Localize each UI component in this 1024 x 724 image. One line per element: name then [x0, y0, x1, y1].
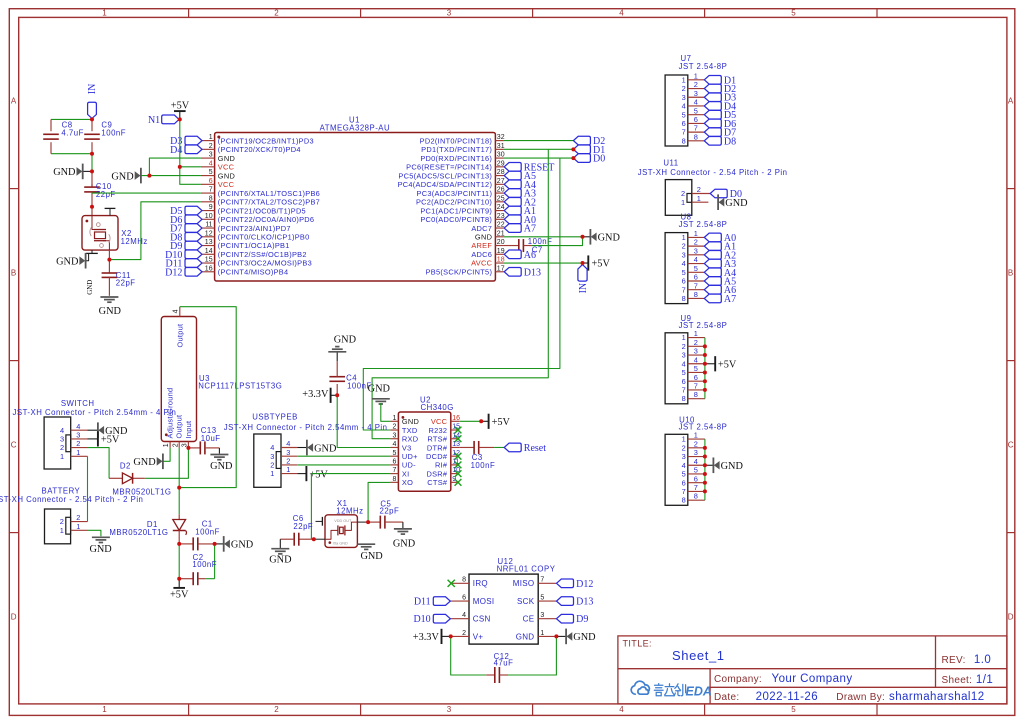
power flag +5V at U2 VCC	[488, 414, 490, 429]
svg-text:15: 15	[205, 257, 213, 264]
flag A0 on U8	[704, 233, 721, 242]
svg-text:9: 9	[209, 204, 213, 211]
svg-text:A7: A7	[524, 224, 536, 235]
svg-text:B: B	[1008, 269, 1013, 278]
X2 case stub top	[109, 208, 111, 215]
U9 pin 4	[688, 363, 705, 365]
wire C8 C9 bottoms	[51, 153, 92, 155]
svg-text:AREF: AREF	[471, 241, 492, 250]
U1 pin 26 PC3(ADC3/PCINT11)	[495, 192, 504, 194]
svg-text:4: 4	[694, 255, 698, 264]
svg-text:4: 4	[619, 705, 624, 714]
capacitor C2 100nF	[178, 544, 180, 579]
svg-text:GND: GND	[53, 167, 76, 178]
netflag IN top-left	[88, 102, 97, 118]
svg-text:1: 1	[102, 9, 107, 18]
svg-text:R232: R232	[429, 426, 448, 435]
connector BATTERY body	[45, 509, 71, 544]
flag D2 on U7	[704, 84, 721, 93]
svg-text:EDA: EDA	[686, 685, 712, 699]
svg-text:7: 7	[694, 124, 698, 133]
U9 pin 3	[688, 354, 705, 356]
U2 pin 14 RTS#	[451, 438, 459, 440]
U2 pin 12 DCD#	[451, 455, 459, 457]
svg-text:7: 7	[682, 487, 686, 496]
svg-text:3: 3	[682, 351, 686, 360]
wire +5V rail to U1 pin4 VCC	[180, 119, 201, 166]
U1 pin 10 (PCINT22/OC0A/AIN0)PD6	[201, 218, 215, 220]
ground flag left of C9	[83, 170, 92, 172]
svg-text:CH340G: CH340G	[421, 403, 454, 412]
svg-text:5: 5	[682, 368, 686, 377]
svg-text:DTR#: DTR#	[427, 443, 448, 452]
wire U3 pin1 to GND	[163, 448, 170, 461]
svg-text:28: 28	[497, 169, 505, 176]
svg-text:1: 1	[682, 435, 686, 444]
wire U1 pin32 to flag D2	[504, 140, 574, 142]
svg-text:2: 2	[60, 517, 64, 526]
ground flag near U1 pins 3-5	[140, 168, 142, 184]
svg-text:D4: D4	[170, 145, 182, 156]
svg-text:GND: GND	[314, 443, 337, 454]
wire U3 output rail	[179, 307, 236, 488]
svg-text:12: 12	[205, 230, 213, 237]
svg-text:2: 2	[681, 189, 685, 198]
U1 pin 1 (PCINT19/OC2B/INT1)PD3	[201, 140, 215, 142]
svg-text:PC3(ADC3/PCINT11): PC3(ADC3/PCINT11)	[417, 189, 493, 198]
svg-text:PC0(ADC0/PCINT8): PC0(ADC0/PCINT8)	[420, 215, 492, 224]
svg-text:4.7uF: 4.7uF	[61, 128, 83, 137]
U10 pin 6	[688, 482, 705, 484]
svg-text:3: 3	[286, 448, 290, 457]
U2 pin 4 V3	[390, 446, 398, 448]
wire U1 pin21 GND	[504, 236, 583, 238]
svg-text:Output: Output	[175, 415, 184, 439]
flag D6 on U1 pin10	[185, 215, 202, 224]
svg-text:5: 5	[209, 169, 213, 176]
capacitor C8 4.7uF	[50, 119, 52, 131]
svg-text:GND: GND	[721, 461, 744, 472]
U12 pin 3 CE	[538, 618, 556, 620]
svg-text:USBTYPEB: USBTYPEB	[252, 412, 298, 421]
svg-text:Reset: Reset	[524, 443, 546, 454]
svg-text:4: 4	[694, 457, 698, 466]
flag D7 on U7	[704, 128, 721, 137]
svg-text:1.0: 1.0	[974, 654, 991, 666]
svg-text:2: 2	[694, 338, 698, 347]
U1 pin 6 VCC	[201, 183, 215, 185]
svg-text:6: 6	[694, 115, 698, 124]
svg-text:D: D	[11, 613, 17, 622]
svg-text:8: 8	[682, 394, 686, 403]
wire U2 XO to X1	[368, 482, 390, 522]
svg-text:10uF: 10uF	[201, 434, 221, 443]
svg-text:4: 4	[209, 160, 213, 167]
svg-text:5: 5	[694, 264, 698, 273]
svg-text:GND: GND	[402, 417, 419, 426]
svg-text:UD-: UD-	[402, 461, 416, 470]
svg-text:GND: GND	[334, 335, 357, 346]
svg-text:PD0(RXD/PCINT16): PD0(RXD/PCINT16)	[420, 154, 492, 163]
U10 pin 2	[688, 447, 705, 449]
svg-text:6: 6	[682, 119, 686, 128]
svg-text:2: 2	[682, 84, 686, 93]
svg-text:GND: GND	[111, 171, 134, 182]
svg-text:V+: V+	[473, 632, 484, 641]
U1 pin 12 (PCINT0/CLKO/ICP1)PB0	[201, 236, 215, 238]
svg-text:8: 8	[392, 476, 396, 483]
U1 pin 24 PC1(ADC1/PCINT9)	[495, 210, 504, 212]
wire IN node to C8	[51, 118, 92, 120]
svg-text:MISO: MISO	[513, 579, 535, 588]
svg-text:16: 16	[452, 415, 460, 422]
flag A3 on U8	[704, 259, 721, 268]
flag D12 on U1 pin16	[185, 267, 202, 276]
svg-text:5: 5	[540, 595, 544, 602]
svg-text:6: 6	[209, 178, 213, 185]
svg-text:+5V: +5V	[170, 589, 189, 600]
svg-text:1: 1	[682, 333, 686, 342]
svg-text:JST-XH Connector - 2.54 Pitch: JST-XH Connector - 2.54 Pitch - 2 Pin	[638, 168, 788, 177]
ground flag below U3 pin1	[162, 454, 164, 470]
svg-text:D12: D12	[576, 579, 593, 590]
svg-text:GND: GND	[475, 232, 492, 241]
U1 pin 29 PC6(RESET=/PCINT14)	[495, 166, 504, 168]
wire switch pin2 to D2 anode	[88, 448, 110, 479]
svg-text:JST-XH Connector - Pitch 2.54m: JST-XH Connector - Pitch 2.54mm - 4 Pin	[13, 408, 177, 417]
svg-text:12MHz: 12MHz	[336, 506, 363, 515]
U11 pin 1	[692, 201, 709, 203]
svg-text:D2: D2	[120, 461, 131, 470]
svg-text:(PCINT2/SS#/OC1B)PB2: (PCINT2/SS#/OC1B)PB2	[218, 250, 307, 259]
svg-text:1: 1	[682, 233, 686, 242]
svg-text:PB5(SCK/PCINT5): PB5(SCK/PCINT5)	[426, 267, 493, 276]
svg-text:100nF: 100nF	[101, 128, 126, 137]
svg-text:5: 5	[392, 450, 396, 457]
flag D1	[573, 145, 590, 154]
SWITCH pin 3	[71, 438, 88, 440]
wire U10 bus	[704, 439, 706, 500]
svg-text:RXD: RXD	[402, 435, 418, 444]
netflag N1	[162, 115, 179, 124]
U1 pin 15 (PCINT3/OC2A/MOSI)PB3	[201, 262, 215, 264]
svg-text:TXD: TXD	[402, 426, 418, 435]
svg-text:GND: GND	[231, 540, 254, 551]
capacitor C3 100nF to Reset	[459, 446, 474, 448]
svg-text:22pF: 22pF	[116, 279, 136, 288]
connector SWITCH body	[44, 417, 71, 469]
U1 pin 19 ADC6	[495, 253, 504, 255]
svg-text:6: 6	[462, 595, 466, 602]
flag D3 on U1 pin1	[185, 136, 202, 145]
U2 pin 6 UD-	[390, 464, 398, 466]
U9 pin 8	[688, 398, 705, 400]
U8 pin 7	[688, 289, 705, 291]
no-connect X on U12 IRQ	[448, 580, 455, 587]
svg-text:VCC: VCC	[218, 163, 235, 172]
U2 pin 1 GND	[390, 420, 398, 422]
U7 pin 7	[688, 131, 705, 133]
svg-text:2: 2	[682, 342, 686, 351]
svg-text:(PCINT22/OC0A/AIN0)PD6: (PCINT22/OC0A/AIN0)PD6	[218, 215, 315, 224]
svg-text:MBR0520LT1G: MBR0520LT1G	[109, 528, 168, 537]
power flag +5V USB pin1	[297, 473, 306, 475]
svg-text:REV:: REV:	[942, 655, 966, 666]
svg-text:TITLE:: TITLE:	[623, 639, 652, 649]
flag D11 on U1 pin15	[185, 259, 202, 268]
svg-text:27: 27	[497, 178, 505, 185]
X1 pin left	[315, 538, 325, 540]
ground flag at U1 pin21	[583, 236, 591, 238]
svg-text:1/1: 1/1	[976, 674, 993, 686]
svg-text:CSN: CSN	[473, 615, 491, 624]
U10 pin 8	[688, 499, 705, 501]
U3 pin4 output top	[179, 307, 181, 317]
ground flag U12 pin1	[556, 635, 566, 637]
svg-text:GND: GND	[360, 551, 383, 562]
flag D7 on U1 pin11	[185, 224, 202, 233]
svg-text:(PCINT0/CLKO/ICP1)PB0: (PCINT0/CLKO/ICP1)PB0	[218, 232, 310, 241]
svg-text:5: 5	[682, 268, 686, 277]
svg-text:3: 3	[447, 9, 452, 18]
svg-text:2: 2	[60, 443, 64, 452]
SWITCH pin 4	[71, 429, 88, 431]
svg-text:26: 26	[497, 187, 505, 194]
svg-text:5: 5	[791, 9, 796, 18]
ground symbol at C13	[218, 448, 220, 454]
svg-text:5: 5	[682, 470, 686, 479]
svg-text:2: 2	[209, 143, 213, 150]
U7 pin 8	[688, 140, 705, 142]
flag D9 on U12 CE	[557, 614, 574, 623]
wire C10 to U1 pin7	[92, 192, 201, 194]
wire net D0 to CH340 TXD	[363, 158, 560, 430]
svg-text:1: 1	[209, 134, 213, 141]
svg-text:1: 1	[76, 448, 80, 457]
svg-text:D13: D13	[524, 267, 541, 278]
svg-text:JST 2.54-8P: JST 2.54-8P	[679, 220, 728, 229]
svg-text:3: 3	[76, 431, 80, 440]
svg-text:2: 2	[694, 80, 698, 89]
svg-text:6: 6	[694, 273, 698, 282]
svg-text:32: 32	[497, 134, 505, 141]
U7 pin 6	[688, 122, 705, 124]
U8 pin 2	[688, 245, 705, 247]
svg-text:1: 1	[694, 329, 698, 338]
flag A4 on U1	[504, 180, 521, 189]
wire net D1 to CH340 RXD	[372, 149, 548, 438]
wire X2 to U1 pin8	[109, 202, 200, 260]
svg-text:2022-11-26: 2022-11-26	[756, 691, 818, 703]
wire U1 pin18 AVCC to +5V	[504, 262, 583, 264]
svg-text:2: 2	[694, 238, 698, 247]
svg-text:4: 4	[173, 309, 180, 313]
U1 pin 14 (PCINT2/SS#/OC1B)PB2	[201, 253, 215, 255]
capacitor C7 100nF on AREF	[504, 245, 519, 247]
svg-text:6: 6	[392, 459, 396, 466]
svg-text:JST 2.54-8P: JST 2.54-8P	[679, 62, 728, 71]
svg-text:4: 4	[682, 102, 686, 111]
svg-text:IN: IN	[87, 84, 98, 95]
svg-text:8: 8	[694, 390, 698, 399]
U1 pin 3 GND	[201, 157, 215, 159]
svg-text:D: D	[1008, 613, 1014, 622]
svg-text:(PCINT21/OC0B/T1)PD5: (PCINT21/OC0B/T1)PD5	[218, 206, 306, 215]
svg-text:PC2(ADC2/PCINT10): PC2(ADC2/PCINT10)	[416, 198, 492, 207]
U1 pin 17 PB5(SCK/PCINT5)	[495, 271, 504, 273]
svg-text:1: 1	[694, 431, 698, 440]
svg-text:2: 2	[682, 242, 686, 251]
svg-text:D8: D8	[724, 136, 736, 147]
svg-text:3: 3	[694, 246, 698, 255]
svg-text:SWITCH: SWITCH	[61, 399, 95, 408]
junction dots layer	[147, 174, 151, 178]
diode D2 MBR0520LT1G	[133, 477, 145, 479]
flag A3 on U1	[504, 189, 521, 198]
svg-text:C: C	[1008, 441, 1014, 450]
flag A5 on U1	[504, 171, 521, 180]
svg-text:2: 2	[286, 457, 290, 466]
wire V+ to C12	[451, 636, 487, 675]
ground flag USB pin4	[297, 447, 307, 449]
svg-text:UD+: UD+	[402, 452, 418, 461]
svg-text:4: 4	[60, 426, 64, 435]
svg-text:10: 10	[205, 213, 213, 220]
svg-text:ADC6: ADC6	[471, 250, 492, 259]
svg-text:1: 1	[102, 705, 107, 714]
flag A2 on U1	[504, 198, 521, 207]
capacitor C12 47uF	[486, 674, 495, 676]
flag D5 on U7	[704, 110, 721, 119]
svg-text:+3.3V: +3.3V	[413, 632, 440, 643]
X1 bottom ground	[357, 543, 375, 545]
svg-text:2: 2	[274, 705, 279, 714]
svg-text:5: 5	[694, 364, 698, 373]
flag D13 on U1 pin17	[504, 267, 521, 276]
ground flag right of C1	[215, 543, 224, 545]
U2 pin 10 DSR#	[451, 473, 459, 475]
U2 pin 15 R232	[451, 429, 459, 431]
flag A0 on U1	[504, 215, 521, 224]
svg-text:3: 3	[682, 93, 686, 102]
svg-text:GND: GND	[573, 632, 596, 643]
svg-text:+3.3V: +3.3V	[302, 389, 329, 400]
ground flag U11 pin1	[717, 194, 719, 210]
flag RESET on U1	[504, 163, 521, 172]
svg-text:3: 3	[682, 250, 686, 259]
flag D10 on U12 CSN	[433, 614, 450, 623]
svg-text:(PCINT7/XTAL2/TOSC2)PB7: (PCINT7/XTAL2/TOSC2)PB7	[218, 198, 320, 207]
wire X2 bottom lead	[108, 250, 110, 260]
svg-text:3: 3	[270, 452, 274, 461]
svg-text:2: 2	[682, 443, 686, 452]
U2 pin 13 DTR#	[451, 446, 459, 448]
capacitor C13 10uF	[188, 447, 200, 449]
U10 pin 4	[688, 464, 705, 466]
wire SWITCH pin1 to battery	[87, 456, 89, 521]
flag D0 on U11	[710, 189, 727, 198]
U1 pin 18 AVCC	[495, 262, 504, 264]
flag D4 on U7	[704, 102, 721, 111]
svg-text:GND: GND	[393, 538, 416, 549]
X1 pin right	[357, 521, 368, 523]
flag A7 on U8	[704, 294, 721, 303]
power flag +5V bottom	[178, 579, 180, 588]
svg-text:5: 5	[694, 106, 698, 115]
U10 pin 7	[688, 490, 705, 492]
svg-text:B: B	[11, 269, 16, 278]
capacitor C11 22pF	[108, 260, 110, 273]
svg-text:PC1(ADC1/PCINT9): PC1(ADC1/PCINT9)	[420, 206, 492, 215]
svg-text:7: 7	[540, 577, 544, 584]
svg-text:100nF: 100nF	[347, 382, 372, 391]
USBTYPEB pin 2	[281, 464, 297, 466]
svg-text:Input: Input	[184, 421, 193, 439]
svg-text:+5V: +5V	[171, 101, 190, 112]
capacitor C1 100nF	[179, 543, 193, 545]
svg-text:GND: GND	[218, 154, 235, 163]
wire U2 XI to X1	[311, 474, 390, 540]
U8 pin 4	[688, 263, 705, 265]
U2 pin 5 UD+	[390, 455, 398, 457]
U9 pin 2	[688, 345, 705, 347]
svg-text:1: 1	[60, 452, 64, 461]
svg-text:4: 4	[270, 443, 274, 452]
svg-text:Your Company: Your Company	[772, 673, 853, 685]
U8 pin 6	[688, 280, 705, 282]
power flag +5V on U9	[705, 363, 715, 365]
svg-text:22pF: 22pF	[293, 522, 313, 531]
wire +3.3V to U2 V3	[337, 395, 390, 447]
svg-text:8: 8	[209, 195, 213, 202]
svg-text:Date:: Date:	[714, 692, 739, 703]
capacitor C6 22pF	[299, 538, 312, 540]
U1 pin 7 (PCINT6/XTAL1/TOSC1)PB6	[201, 192, 215, 194]
flag A2 on U8	[704, 251, 721, 260]
U2 pin 3 RXD	[390, 438, 398, 440]
U3 pin3	[187, 442, 189, 448]
U9 pin 5	[688, 371, 705, 373]
svg-text:GND: GND	[56, 257, 79, 268]
svg-text:3: 3	[694, 89, 698, 98]
svg-text:4: 4	[76, 422, 80, 431]
svg-text:GND: GND	[218, 171, 235, 180]
U8 pin 3	[688, 254, 705, 256]
SWITCH pin 2	[71, 447, 88, 449]
U8 pin 8	[688, 297, 705, 299]
svg-text:NRFL01 COPY: NRFL01 COPY	[497, 564, 556, 573]
svg-text:6: 6	[682, 478, 686, 487]
svg-text:2: 2	[172, 443, 179, 447]
wire U1 pin31 to flag D1	[504, 148, 574, 150]
flag A4 on U8	[704, 268, 721, 277]
svg-text:100nF: 100nF	[192, 560, 217, 569]
ground symbol battery	[92, 536, 110, 538]
U9 pin 7	[688, 389, 705, 391]
svg-text:1: 1	[694, 71, 698, 80]
wire down to GND junction	[91, 154, 93, 172]
flag D2	[573, 136, 590, 145]
svg-text:20: 20	[497, 239, 505, 246]
U12 pin 8 IRQ	[451, 582, 470, 584]
ic U1 ATMEGA328P-AU body	[215, 133, 496, 282]
svg-text:XI: XI	[402, 469, 410, 478]
svg-text:3: 3	[694, 347, 698, 356]
svg-text:1: 1	[681, 198, 685, 207]
svg-text:4: 4	[286, 439, 290, 448]
U1 pin 23 PC0(ADC0/PCINT8)	[495, 218, 504, 220]
svg-text:D12: D12	[165, 267, 182, 278]
